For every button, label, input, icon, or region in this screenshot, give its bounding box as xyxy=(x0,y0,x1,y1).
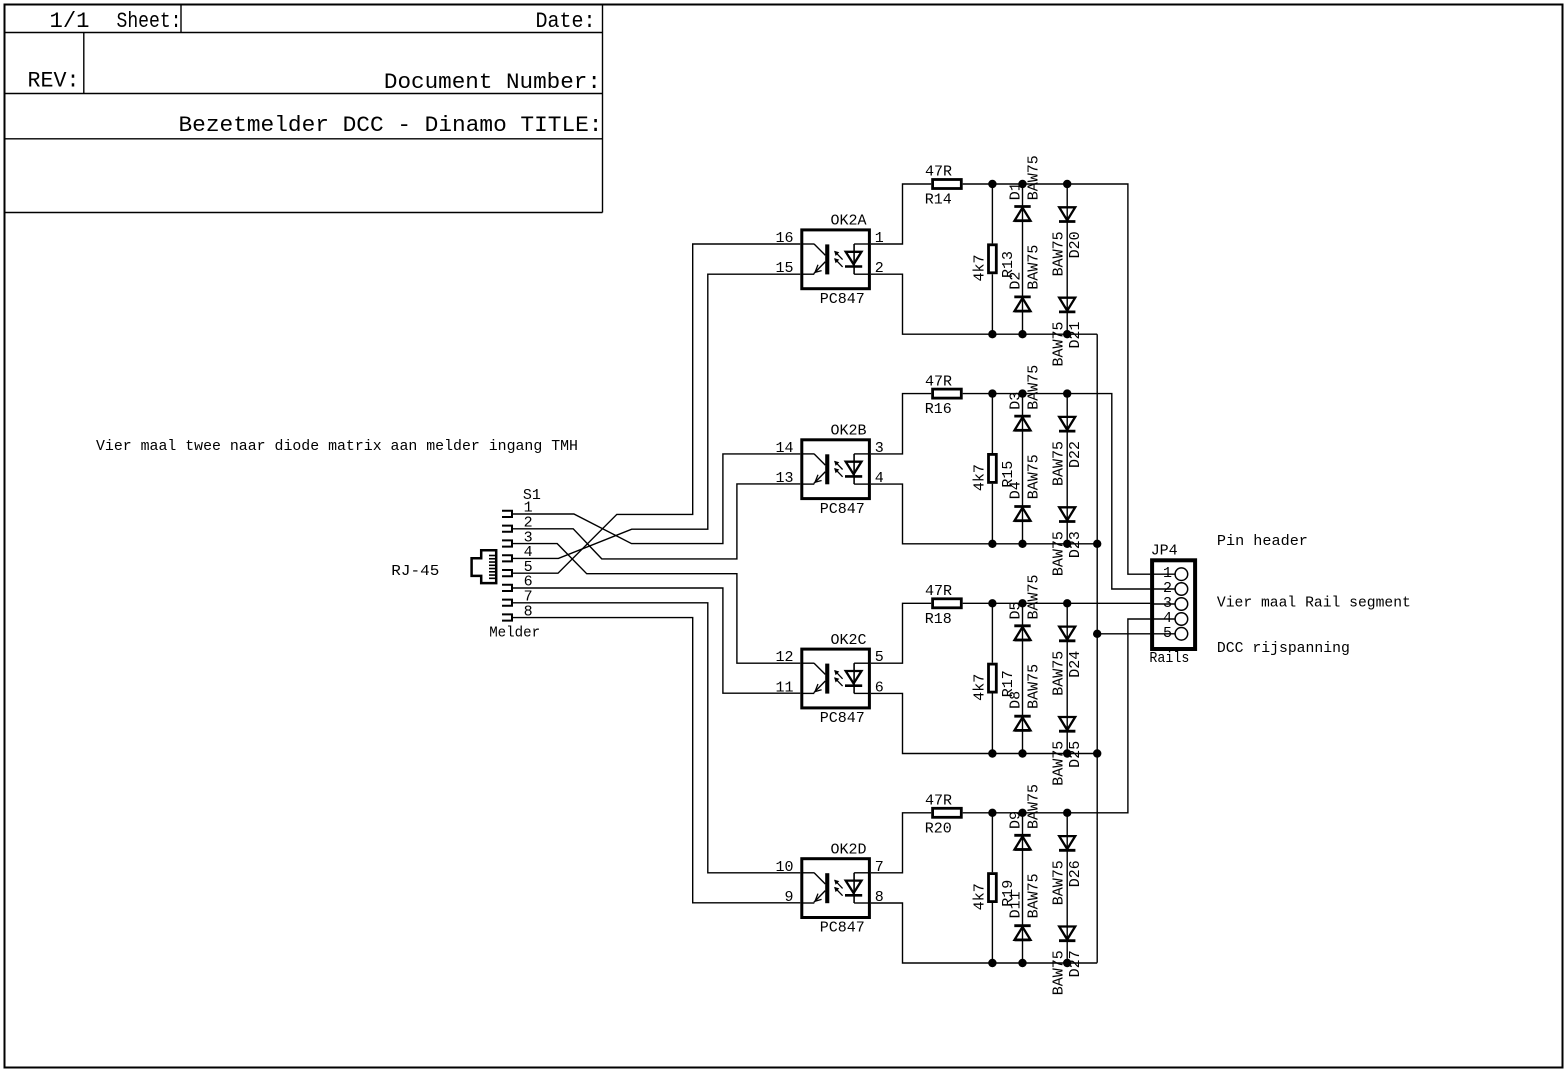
svg-text:BAW75: BAW75 xyxy=(1026,873,1043,918)
svg-text:16: 16 xyxy=(775,230,793,247)
svg-text:D25: D25 xyxy=(1067,741,1084,768)
wire OK2C pin 6 to bottom rail xyxy=(871,693,1097,753)
pin stub S1 pin 2 xyxy=(502,526,512,532)
svg-text:DCC rijspanning: DCC rijspanning xyxy=(1217,640,1350,657)
pin stub S1 pin 3 xyxy=(502,540,512,546)
svg-text:D8: D8 xyxy=(1008,691,1025,709)
pin JP4 4 xyxy=(1154,613,1188,626)
diode D25 BAW75 xyxy=(1059,717,1075,731)
wire S1 pin 3 to OK2C pin 12 xyxy=(513,544,801,664)
svg-text:PC847: PC847 xyxy=(820,920,865,937)
svg-text:Document Number:: Document Number: xyxy=(384,70,601,95)
svg-text:D11: D11 xyxy=(1008,891,1025,918)
wire left diode column group OK2C xyxy=(1022,603,1024,753)
junction at R15 top xyxy=(988,389,996,397)
diode D22 BAW75 xyxy=(1059,417,1075,431)
svg-text:BAW75: BAW75 xyxy=(1050,741,1067,786)
wire OK2A pin 1 to resistor R14 xyxy=(871,184,931,244)
wire S1 pin 1 to OK2B pin 14 xyxy=(513,454,801,544)
junction left column top group OK2D xyxy=(1018,809,1026,817)
wire top rail group OK2C xyxy=(963,602,1151,604)
junction left column top group OK2A xyxy=(1018,180,1026,188)
junction left column bottom group OK2B xyxy=(1018,540,1026,548)
svg-text:D22: D22 xyxy=(1067,441,1084,468)
wire OK2A pin 2 to bottom rail xyxy=(871,274,1097,334)
junction at R17 top xyxy=(988,599,996,607)
svg-text:4k7: 4k7 xyxy=(972,254,989,281)
wire right diode column group OK2A xyxy=(1066,184,1068,334)
junction left column bottom group OK2D xyxy=(1018,959,1026,967)
wire S1 pin 2 to OK2B pin 13 xyxy=(513,484,801,559)
pin JP4 5 xyxy=(1154,628,1188,641)
svg-text:47R: 47R xyxy=(925,793,952,810)
svg-text:REV:: REV: xyxy=(28,68,80,93)
svg-text:10: 10 xyxy=(775,859,793,876)
svg-text:BAW75: BAW75 xyxy=(1050,860,1067,905)
junction right column top group OK2A xyxy=(1063,180,1071,188)
optocoupler OK2D PC847 xyxy=(802,859,870,918)
wire S1 pin 6 to OK2C pin 11 xyxy=(513,588,801,693)
resistor R14 47R xyxy=(933,180,962,189)
wire S1 pin 4 to OK2A pin 15 xyxy=(513,274,801,558)
resistor R15 4k7 xyxy=(989,394,997,544)
diode D9 BAW75 xyxy=(1014,835,1030,849)
svg-text:BAW75: BAW75 xyxy=(1026,454,1043,499)
pin stub S1 pin 8 xyxy=(502,614,512,620)
wire top rail group OK2A xyxy=(963,184,1151,574)
diode D21 BAW75 xyxy=(1059,298,1075,312)
svg-text:PC847: PC847 xyxy=(820,291,865,308)
svg-text:BAW75: BAW75 xyxy=(1050,950,1067,995)
svg-text:Vier maal Rail segment: Vier maal Rail segment xyxy=(1217,594,1411,611)
svg-text:13: 13 xyxy=(775,470,793,487)
pin JP4 3 xyxy=(1154,598,1188,611)
svg-text:RJ-45: RJ-45 xyxy=(391,563,439,580)
svg-text:D2: D2 xyxy=(1008,272,1025,290)
junction at R19 top xyxy=(988,809,996,817)
svg-text:5: 5 xyxy=(1163,625,1172,642)
svg-text:JP4: JP4 xyxy=(1151,542,1178,559)
wire S1 pin 8 to OK2D pin 9 xyxy=(513,618,801,903)
optocoupler OK2C PC847 xyxy=(802,649,870,708)
svg-text:D9: D9 xyxy=(1008,811,1025,829)
connector JP4 pin header xyxy=(1152,560,1195,649)
svg-text:1/1: 1/1 xyxy=(50,9,90,34)
svg-text:PC847: PC847 xyxy=(820,710,865,727)
diode D26 BAW75 xyxy=(1059,836,1075,850)
svg-text:D20: D20 xyxy=(1067,231,1084,258)
svg-text:BAW75: BAW75 xyxy=(1026,365,1043,410)
svg-text:Vier maal twee naar diode matr: Vier maal twee naar diode matrix aan mel… xyxy=(96,438,578,455)
svg-text:47R: 47R xyxy=(925,373,952,390)
diode D23 BAW75 xyxy=(1059,507,1075,521)
svg-text:OK2A: OK2A xyxy=(831,213,867,230)
wire right diode column group OK2D xyxy=(1066,813,1068,963)
svg-text:OK2D: OK2D xyxy=(831,841,867,858)
junction right column top group OK2C xyxy=(1063,599,1071,607)
svg-text:D3: D3 xyxy=(1008,392,1025,410)
wire right diode column group OK2B xyxy=(1066,394,1068,544)
junction right column bottom group OK2A xyxy=(1063,330,1071,338)
svg-text:9: 9 xyxy=(784,889,793,906)
resistor R13 4k7 xyxy=(989,184,997,334)
svg-text:R16: R16 xyxy=(925,401,952,418)
junction at R13 bottom xyxy=(988,330,996,338)
svg-text:D27: D27 xyxy=(1067,950,1084,977)
svg-text:11: 11 xyxy=(775,679,793,696)
junction at R17 bottom xyxy=(988,749,996,757)
svg-text:D21: D21 xyxy=(1067,321,1084,348)
diode D24 BAW75 xyxy=(1059,627,1075,641)
diode D20 BAW75 xyxy=(1059,207,1075,221)
svg-text:4k7: 4k7 xyxy=(972,464,989,491)
wire OK2B pin 4 to bottom rail xyxy=(871,484,1097,544)
diode D3 BAW75 xyxy=(1014,416,1030,430)
svg-text:D5: D5 xyxy=(1008,601,1025,619)
svg-text:D26: D26 xyxy=(1067,860,1084,887)
svg-text:OK2B: OK2B xyxy=(831,423,867,440)
wire common bottom rail bus to JP4 pin 5 xyxy=(1096,334,1098,963)
junction right column top group OK2D xyxy=(1063,809,1071,817)
resistor R19 4k7 xyxy=(989,813,997,963)
diode D1 BAW75 xyxy=(1014,207,1030,221)
svg-text:OK2C: OK2C xyxy=(831,632,867,649)
svg-text:Rails: Rails xyxy=(1149,650,1189,667)
svg-text:BAW75: BAW75 xyxy=(1026,155,1043,200)
diode D27 BAW75 xyxy=(1059,927,1075,941)
pin stub S1 pin 4 xyxy=(502,555,512,561)
svg-text:Sheet:: Sheet: xyxy=(117,9,182,34)
svg-text:R14: R14 xyxy=(925,192,952,209)
wire S1 pin 5 to OK2A pin 16 xyxy=(513,244,801,573)
svg-text:D1: D1 xyxy=(1008,182,1025,200)
svg-text:BAW75: BAW75 xyxy=(1050,231,1067,276)
wire top rail group OK2B xyxy=(963,394,1151,589)
wire OK2D pin 7 to resistor R20 xyxy=(871,813,931,873)
pin stub S1 pin 6 xyxy=(502,585,512,591)
svg-text:D4: D4 xyxy=(1008,481,1025,499)
junction right column bottom group OK2C xyxy=(1063,749,1071,757)
resistor R16 47R xyxy=(933,389,962,398)
junction at R13 top xyxy=(988,180,996,188)
svg-text:Melder: Melder xyxy=(489,625,540,642)
diode D5 BAW75 xyxy=(1014,626,1030,640)
svg-text:Bezetmelder DCC - Dinamo TITL: Bezetmelder DCC - Dinamo TITLE: xyxy=(179,113,603,138)
optocoupler OK2A PC847 xyxy=(802,230,870,289)
junction at R19 bottom xyxy=(988,959,996,967)
svg-text:BAW75: BAW75 xyxy=(1050,651,1067,696)
pin stub S1 pin 7 xyxy=(502,600,512,606)
pin stub S1 pin 5 xyxy=(502,570,512,576)
wire right diode column group OK2C xyxy=(1066,603,1068,753)
wire left diode column group OK2A xyxy=(1022,184,1024,334)
svg-text:12: 12 xyxy=(775,649,793,666)
svg-text:BAW75: BAW75 xyxy=(1050,441,1067,486)
svg-text:R18: R18 xyxy=(925,611,952,628)
svg-text:BAW75: BAW75 xyxy=(1026,574,1043,619)
junction left column bottom group OK2C xyxy=(1018,749,1026,757)
svg-text:D23: D23 xyxy=(1067,531,1084,558)
pin JP4 2 xyxy=(1154,583,1188,596)
junction bottom rail C xyxy=(1093,749,1101,757)
resistor R20 47R xyxy=(933,808,962,817)
svg-text:Pin header: Pin header xyxy=(1217,533,1308,550)
diode D4 BAW75 xyxy=(1014,507,1030,521)
resistor R17 4k7 xyxy=(989,603,997,753)
junction right column top group OK2B xyxy=(1063,389,1071,397)
wire left diode column group OK2B xyxy=(1022,394,1024,544)
connector S1 RJ-45 jack body xyxy=(472,550,497,583)
junction bottom rail B xyxy=(1093,540,1101,548)
svg-text:BAW75: BAW75 xyxy=(1026,784,1043,829)
pin JP4 1 xyxy=(1154,568,1188,581)
diode D8 BAW75 xyxy=(1014,716,1030,730)
wire OK2B pin 3 to resistor R16 xyxy=(871,394,931,454)
junction left column top group OK2B xyxy=(1018,389,1026,397)
optocoupler OK2B PC847 xyxy=(802,440,870,499)
wire left diode column group OK2D xyxy=(1022,813,1024,963)
pin stub S1 pin 1 xyxy=(502,511,512,517)
svg-text:BAW75: BAW75 xyxy=(1026,245,1043,290)
wire S1 pin 7 to OK2D pin 10 xyxy=(513,603,801,873)
svg-text:BAW75: BAW75 xyxy=(1050,531,1067,576)
diode D2 BAW75 xyxy=(1014,297,1030,311)
resistor R18 47R xyxy=(933,599,962,608)
svg-text:47R: 47R xyxy=(925,583,952,600)
wire top rail group OK2D xyxy=(963,619,1151,813)
svg-text:47R: 47R xyxy=(925,164,952,181)
svg-text:R20: R20 xyxy=(925,820,952,837)
svg-text:4k7: 4k7 xyxy=(972,883,989,910)
junction right column bottom group OK2D xyxy=(1063,959,1071,967)
junction left column top group OK2C xyxy=(1018,599,1026,607)
svg-text:BAW75: BAW75 xyxy=(1050,321,1067,366)
junction at R15 bottom xyxy=(988,540,996,548)
wire OK2D pin 8 to bottom rail xyxy=(871,903,1097,963)
svg-text:4k7: 4k7 xyxy=(972,674,989,701)
svg-text:BAW75: BAW75 xyxy=(1026,664,1043,709)
svg-text:Date:: Date: xyxy=(536,9,596,34)
junction JP4 pin 5 tap xyxy=(1093,630,1101,638)
diode D11 BAW75 xyxy=(1014,926,1030,940)
svg-text:PC847: PC847 xyxy=(820,501,865,518)
junction left column bottom group OK2A xyxy=(1018,330,1026,338)
junction right column bottom group OK2B xyxy=(1063,540,1071,548)
svg-text:D24: D24 xyxy=(1067,651,1084,678)
wire OK2C pin 5 to resistor R18 xyxy=(871,603,931,663)
svg-text:14: 14 xyxy=(775,440,793,457)
svg-text:15: 15 xyxy=(775,260,793,277)
